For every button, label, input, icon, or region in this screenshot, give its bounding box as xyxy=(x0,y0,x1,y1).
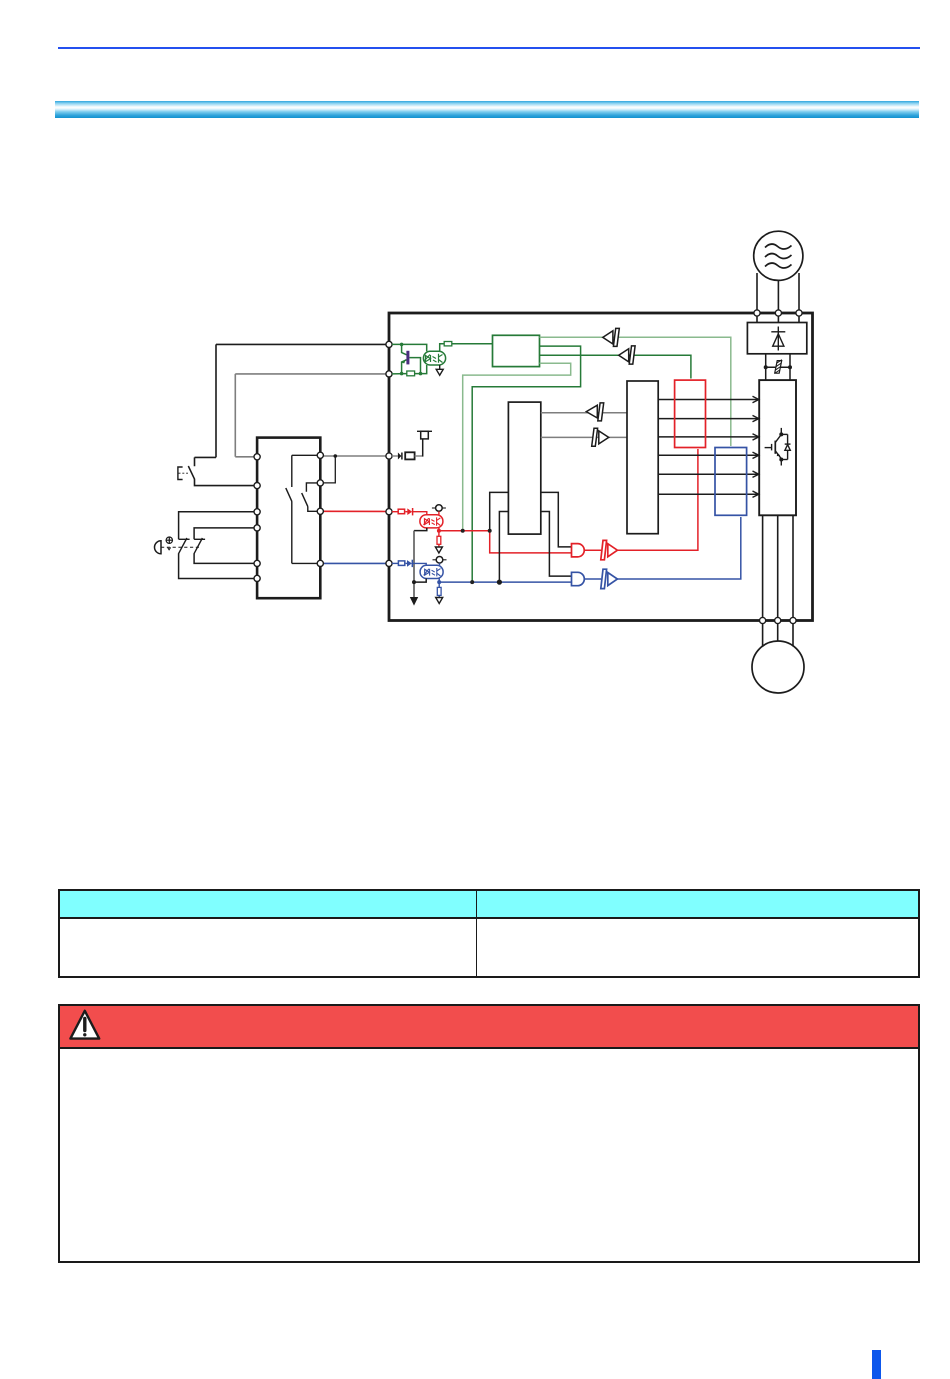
wire T phase xyxy=(798,273,800,310)
schematic: safety stop function wiring diagram xyxy=(0,0,950,760)
photocoupler PC3 (blue) xyxy=(420,565,443,578)
blue AND output wire xyxy=(584,578,601,580)
buffer B1 (left pointing) xyxy=(603,328,620,346)
spec table xyxy=(58,889,920,978)
motor leads xyxy=(763,624,793,647)
earth circle symbol xyxy=(166,537,173,544)
rectifier diode symbol xyxy=(771,327,785,351)
junction dot P2/blue xyxy=(470,580,474,584)
photocoupler PC1 (green) xyxy=(423,351,445,365)
red input diode xyxy=(407,508,427,515)
emergency stop switch xyxy=(178,466,254,486)
control power supply block (green) xyxy=(493,335,540,366)
wire stubs to converter xyxy=(757,316,799,323)
PC3 cathode return wire xyxy=(414,579,426,583)
PC2 output junction xyxy=(437,529,441,533)
wire G1 (grey) xyxy=(541,412,627,414)
buffer B3 (left pointing) xyxy=(586,403,603,421)
feedback loop wire at terminal SO xyxy=(323,458,335,483)
terminal S2 xyxy=(386,371,392,377)
shunt transistor bar xyxy=(406,351,409,365)
output shutoff block 1 (red) xyxy=(675,380,706,447)
PC2 cathode return wire xyxy=(414,528,427,531)
net P1: feedback to output shutoff block (light green) xyxy=(540,337,731,446)
check mark on link xyxy=(168,547,171,549)
inverter enclosure box xyxy=(389,313,813,621)
common return arrow xyxy=(410,597,418,606)
relay internal contact K2 xyxy=(302,483,318,511)
junction dot on return rail xyxy=(412,580,416,584)
warning triangle icon xyxy=(65,1008,105,1044)
terminal V xyxy=(775,617,781,623)
gate drive logic block xyxy=(508,402,540,534)
reset button sensor symbol xyxy=(155,541,162,554)
emitter arrowhead xyxy=(401,359,406,364)
terminal S2c xyxy=(386,560,392,566)
arrowheads into inverter block xyxy=(753,396,759,497)
red AND gate xyxy=(572,544,585,557)
terminal S1c xyxy=(386,509,392,515)
SO output circuit: diode, resistor, pull-up xyxy=(392,431,432,459)
green junction dots xyxy=(400,343,404,347)
blue bias resistor and ground xyxy=(436,582,443,603)
junction dot loopA/red xyxy=(488,529,492,533)
blue wire to shutoff block 2 xyxy=(617,517,740,579)
mechanical link (dashed) xyxy=(161,546,200,548)
logic loop A (black) xyxy=(490,492,572,547)
page number tab xyxy=(872,1350,881,1379)
wire V phase xyxy=(777,515,779,617)
IGBT node dots xyxy=(779,432,783,436)
relay terminals right xyxy=(317,452,323,566)
net P2: monitor line to channel 2 (green) xyxy=(472,346,580,582)
input resistor (green) xyxy=(407,371,415,376)
wire G2 (grey) xyxy=(541,436,627,438)
terminal U xyxy=(760,617,766,623)
wire SO (grey) xyxy=(323,455,386,457)
red buffer B5 (right pointing) xyxy=(601,540,618,559)
relay terminals left xyxy=(254,454,260,582)
net P3: gate command to shutoff block 1 (green) xyxy=(540,355,691,378)
junction dot on SO wire xyxy=(334,454,338,458)
wire U phase xyxy=(762,515,764,617)
junction dot P4/red xyxy=(461,529,465,533)
buffer B4 (right pointing) xyxy=(592,428,609,446)
external wire to terminal S1 (black) xyxy=(195,344,387,466)
power supply source xyxy=(754,231,803,280)
reset loop outer wire xyxy=(179,512,254,579)
wire S1 channel (red) from relay xyxy=(323,510,386,512)
red input resistor xyxy=(392,509,407,514)
reset switch contact 2 xyxy=(194,538,205,554)
relay internal contact K1 xyxy=(286,455,317,563)
PC1 emitter ground xyxy=(436,365,443,375)
reset switch contact 1 xyxy=(178,538,189,554)
wire to control power block xyxy=(452,343,493,345)
gate signal bus wires with arrows xyxy=(658,400,757,495)
terminal R xyxy=(754,310,760,316)
common return rail (grey) xyxy=(413,531,415,598)
terminal SO xyxy=(386,453,392,459)
blue buffer B6 (right pointing) xyxy=(601,569,618,588)
DC bus junction dots xyxy=(764,365,768,369)
internal supply node (red channel) xyxy=(432,505,446,515)
red wire to shutoff block 1 xyxy=(617,449,698,550)
terminal W xyxy=(790,617,796,623)
section title gradient band xyxy=(55,101,919,118)
blue input diode xyxy=(407,560,426,567)
junction dot loopB/blue xyxy=(497,580,502,585)
wire W phase xyxy=(792,515,794,617)
motor xyxy=(752,641,804,693)
wire S phase xyxy=(777,281,779,311)
wire S2 channel (blue) from relay xyxy=(323,562,386,564)
internal supply node (blue channel) xyxy=(433,557,447,566)
PC1 output pull-up wire xyxy=(440,344,445,352)
external wire to terminal S2 (grey) xyxy=(235,374,386,457)
blue AND gate xyxy=(572,572,585,585)
wire R phase xyxy=(756,273,758,310)
inverter IGBT block xyxy=(759,380,796,515)
warning block xyxy=(58,1004,920,1263)
buffer B2 (left pointing) xyxy=(619,346,635,364)
IGBT with freewheel diode xyxy=(765,428,791,466)
photocoupler PC2 (red) xyxy=(420,515,443,528)
red output wire xyxy=(439,528,572,553)
terminal S xyxy=(775,310,781,316)
converter rectifier block xyxy=(747,323,806,354)
header rule xyxy=(58,47,920,49)
PC1 output resistor xyxy=(444,342,452,346)
safety relay module box xyxy=(257,438,320,599)
reset loop inner wire xyxy=(194,528,254,564)
net P4: monitor line to channel 1 (light green) xyxy=(463,363,571,531)
output shutoff block 2 (blue) xyxy=(715,448,747,516)
red bias resistor and ground xyxy=(435,531,442,553)
DC bus wires xyxy=(766,354,790,380)
red AND output wire xyxy=(584,549,601,551)
smoothing capacitor (hatched) xyxy=(775,360,782,374)
blue output wire xyxy=(439,579,571,583)
PC3 output junction xyxy=(437,580,441,584)
terminal S1 xyxy=(386,341,392,347)
logic loop B (black) xyxy=(499,512,571,583)
PWM control block xyxy=(627,381,658,534)
internal S1/S2 input network (green) xyxy=(392,344,427,374)
blue input resistor xyxy=(392,561,407,566)
terminal T xyxy=(796,310,802,316)
